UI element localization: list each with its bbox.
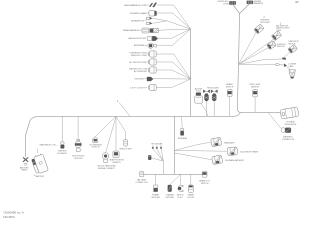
connector top left xyxy=(229,1,235,4)
connector P1 xyxy=(254,24,264,34)
wire F2 to P5 xyxy=(174,142,210,150)
label connector C6 xyxy=(119,149,132,151)
svg-text:12V P. OUTLET: 12V P. OUTLET xyxy=(130,87,145,89)
label battery cable xyxy=(20,166,29,171)
part number xyxy=(3,211,25,219)
svg-text:SPEAKER CN: SPEAKER CN xyxy=(131,19,145,22)
svg-text:RH HEADLAMP ASSY: RH HEADLAMP ASSY xyxy=(225,159,245,162)
label connector C2 xyxy=(72,155,85,160)
wire F1 to P1 xyxy=(239,32,257,64)
svg-text:SENSOR: SENSOR xyxy=(251,87,260,89)
splice pin 1 xyxy=(152,146,154,149)
connector J5 xyxy=(147,36,158,40)
leader J11 xyxy=(146,87,148,89)
connector C18 xyxy=(178,185,183,192)
wire bus left end battery cable xyxy=(26,116,38,156)
svg-text:SWITCH: SWITCH xyxy=(277,46,285,48)
splice connector xyxy=(148,155,151,159)
connector top right xyxy=(247,1,253,4)
svg-text:REV BUZZER: REV BUZZER xyxy=(207,87,219,89)
leader J4 xyxy=(140,29,142,31)
splice pin 2 xyxy=(156,146,158,149)
wire right branch xyxy=(240,111,280,113)
label connector C1 inline xyxy=(40,143,58,146)
label connector P6 xyxy=(240,151,258,154)
wire F1 to P2 xyxy=(239,39,274,64)
label connector J3 xyxy=(131,19,145,22)
wire twisted pair bottom xyxy=(152,21,167,24)
label connector C4 xyxy=(97,164,116,169)
wire J6 to trunk xyxy=(157,29,191,45)
label connector J5 xyxy=(128,37,147,40)
svg-text:GAUGE SUPPORT: GAUGE SUPPORT xyxy=(128,37,147,40)
wire J1 to C6 xyxy=(116,116,126,139)
connector J11 xyxy=(148,84,156,90)
battery stub xyxy=(37,149,39,154)
connector J8 xyxy=(148,59,156,65)
label connector J9 xyxy=(129,68,148,73)
svg-text:SWITCH: SWITCH xyxy=(92,147,100,149)
svg-text:OUTLET: OUTLET xyxy=(187,197,195,199)
label connector P4 xyxy=(288,40,299,45)
wire splice trunk xyxy=(162,161,164,174)
label battery xyxy=(33,175,45,178)
connector J1 xyxy=(149,3,157,7)
wire F2 to P7 xyxy=(174,153,211,160)
wire J1 to C3 xyxy=(95,116,116,136)
label connector P5 xyxy=(224,141,235,144)
label connector P7 xyxy=(225,159,245,162)
svg-text:PLUG: PLUG xyxy=(196,91,201,93)
label connector C5 xyxy=(109,158,124,164)
wire J1 to trunk xyxy=(157,5,191,29)
svg-text:“IF SO”: “IF SO” xyxy=(177,197,183,199)
connector C4 xyxy=(102,153,109,163)
svg-text:SENSOR: SENSOR xyxy=(112,162,121,164)
label connector P3 xyxy=(277,44,286,48)
wire oval to terminal xyxy=(279,64,283,66)
label connector J2 xyxy=(130,12,148,15)
label connector C10 xyxy=(178,137,187,140)
connector C15 xyxy=(202,171,207,177)
svg-text:HARNESS: HARNESS xyxy=(254,2,264,5)
wire J11 to trunk xyxy=(156,79,190,88)
wire trunk main vertical xyxy=(237,14,240,113)
wire J10 to trunk xyxy=(153,78,190,80)
svg-text:SPLICE BAR: SPLICE BAR xyxy=(151,142,163,145)
connector C12 xyxy=(253,90,258,99)
wire C9 drop xyxy=(213,101,215,116)
label connector J8 xyxy=(129,62,147,64)
connector C6 xyxy=(124,140,128,146)
svg-text:SENSOR CONN: SENSOR CONN xyxy=(131,55,147,57)
wire F2 drop xyxy=(173,116,175,174)
splice pin 3 xyxy=(160,146,162,149)
leader J10 xyxy=(145,78,147,80)
leader J6 xyxy=(145,44,147,46)
connector J6 xyxy=(146,43,157,48)
svg-text:CONNECTOR: CONNECTOR xyxy=(282,139,295,141)
label connector C3 xyxy=(89,144,102,148)
connector J7 xyxy=(148,51,156,57)
battery xyxy=(31,153,49,175)
svg-text:GROUND: GROUND xyxy=(134,79,144,81)
connector J2 xyxy=(149,11,157,16)
wire splice 4 xyxy=(152,158,164,161)
svg-text:GROUND: GROUND xyxy=(151,197,160,199)
wire J1 to C5 xyxy=(115,116,117,151)
label connector C19 xyxy=(187,194,195,200)
label connector C1 xyxy=(57,150,67,155)
wire J9 to trunk xyxy=(156,70,190,79)
svg-text:ANTENNA: ANTENNA xyxy=(134,44,145,47)
svg-text:BATTERY: BATTERY xyxy=(36,175,45,178)
svg-text:MAIN HARNESS CONN: MAIN HARNESS CONN xyxy=(124,4,147,7)
svg-text:SWITCH: SWITCH xyxy=(201,183,209,185)
wire C11 drop xyxy=(229,97,231,117)
connector P6 xyxy=(227,147,238,156)
connector C3 xyxy=(93,137,98,143)
wire splice 3 xyxy=(161,149,163,161)
label connector J7 xyxy=(129,53,147,57)
svg-text:ACCESSORY HARN: ACCESSORY HARN xyxy=(240,151,258,154)
label connector J6 xyxy=(134,44,145,47)
label top connector left xyxy=(218,0,230,5)
label module M1 xyxy=(285,121,297,126)
wire J8 to trunk xyxy=(156,62,190,79)
label top connector right xyxy=(254,1,264,5)
wire connector C13 lead xyxy=(268,112,281,129)
label connector C16 xyxy=(151,193,160,199)
svg-text:ANTENNA: ANTENNA xyxy=(178,137,187,140)
label connector J4 xyxy=(123,29,140,32)
wire F1 to P3 xyxy=(239,48,268,64)
wire Y fork left xyxy=(233,5,240,14)
label connector P2 xyxy=(276,26,290,32)
connector C8 xyxy=(203,90,209,101)
battery cable clamp xyxy=(23,157,28,165)
inline terminal on P4 wire xyxy=(282,58,286,60)
label connector C7 xyxy=(195,87,203,92)
wire splice 2 xyxy=(157,149,164,161)
wire Y fork right xyxy=(240,4,250,14)
inline oval splice xyxy=(275,64,279,66)
svg-text:REGULATOR: REGULATOR xyxy=(285,123,297,126)
connector C5 xyxy=(113,151,119,158)
svg-text:CABLE: CABLE xyxy=(21,169,28,172)
connector C1 xyxy=(61,142,65,149)
label connectors C8 C9 xyxy=(207,87,219,89)
connector J4 xyxy=(142,28,158,33)
label connector C15 xyxy=(199,179,210,185)
label connector J11 xyxy=(130,87,145,89)
lamp socket xyxy=(289,70,296,79)
wire F1 oval branch xyxy=(239,63,276,66)
svg-text:SOLENOID: SOLENOID xyxy=(57,153,67,155)
wire C2 drop xyxy=(77,116,79,139)
label splice cluster xyxy=(151,142,163,145)
wire J4 to trunk xyxy=(158,29,190,30)
connector J9 xyxy=(148,67,156,73)
leader J8 xyxy=(147,61,149,63)
leader J3 xyxy=(145,20,147,22)
wire main bus xyxy=(37,112,240,116)
label connector C12 xyxy=(249,84,261,88)
label connector C13 xyxy=(282,136,295,141)
module M1 xyxy=(280,107,299,119)
wire twisted pair top xyxy=(152,18,190,29)
wire C8 drop xyxy=(206,101,208,116)
svg-text:MAIN RELAY CON —: MAIN RELAY CON — xyxy=(40,143,58,146)
svg-text:STEERING HARN: STEERING HARN xyxy=(130,12,148,15)
page mark xyxy=(295,1,299,2)
wire C7 lead xyxy=(201,103,208,116)
wire C16 drop xyxy=(155,174,157,185)
wire C18 drop xyxy=(179,174,181,184)
connector C16 xyxy=(153,185,158,192)
wire F2 to P6 xyxy=(174,150,226,153)
svg-text:REAR HARNESS: REAR HARNESS xyxy=(123,29,140,32)
callout 1 leader xyxy=(119,103,130,117)
svg-text:SWITCHES: SWITCHES xyxy=(260,22,270,24)
svg-text:GLOVE BOX PWR: GLOVE BOX PWR xyxy=(129,62,147,64)
wire F1 to P4 xyxy=(239,52,290,64)
connector P2 xyxy=(271,31,281,41)
wire C17 diagonal xyxy=(170,174,180,185)
svg-text:ENGINE CONNECT: ENGINE CONNECT xyxy=(98,168,116,170)
leader J7 xyxy=(147,53,149,55)
connector C13 xyxy=(281,128,291,133)
leader J9 xyxy=(148,69,150,71)
connector C11 xyxy=(227,90,232,97)
svg-text:LAMP: LAMP xyxy=(289,65,295,68)
wire splice 1 xyxy=(153,149,164,161)
wire C1 drop xyxy=(61,116,63,142)
label connector C14 xyxy=(135,179,148,185)
svg-text:CONN: CONN xyxy=(223,3,229,5)
label connector J10 xyxy=(134,79,144,81)
arrow terminal xyxy=(284,64,287,67)
wire J2 to trunk xyxy=(157,13,191,29)
wire J5 to trunk xyxy=(158,29,191,38)
svg-text:1: 1 xyxy=(117,99,119,103)
connector P4 xyxy=(288,44,298,53)
wire trunk A to B to bus xyxy=(190,29,192,116)
svg-text:SWITCH: SWITCH xyxy=(226,87,234,89)
connector C19 xyxy=(188,185,193,192)
connector J3 pin 1 xyxy=(146,17,152,19)
label connector C18 xyxy=(177,195,184,200)
wire J1 to C4 xyxy=(106,116,116,152)
label connector P1 xyxy=(260,20,270,24)
leader J2 xyxy=(148,12,150,14)
connector P3 xyxy=(267,41,277,50)
svg-text:2: 2 xyxy=(263,16,265,19)
wire bottom bus xyxy=(144,173,204,175)
svg-text:MODULE: MODULE xyxy=(74,158,83,160)
wire to lamp socket xyxy=(286,66,290,70)
label connector C17 xyxy=(166,194,175,200)
svg-text:CONNECTOR: CONNECTOR xyxy=(135,182,148,184)
wire C19 drop xyxy=(190,174,192,185)
connector C14 xyxy=(140,172,144,177)
wire C10 lead xyxy=(181,116,182,128)
connector J10 xyxy=(146,77,153,81)
wire J7 to trunk xyxy=(156,54,190,79)
svg-text:16C48?e: 16C48?e xyxy=(3,215,15,219)
connector J3 pin 2 xyxy=(146,22,152,24)
svg-text:VEHICLE SPD: VEHICLE SPD xyxy=(119,149,132,151)
leader J5 xyxy=(147,37,149,39)
label connector J1 xyxy=(124,4,147,7)
wire C12 drop xyxy=(254,99,256,112)
svg-text:HEADLAMP: HEADLAMP xyxy=(224,141,235,144)
connector C7 xyxy=(195,93,203,104)
connector P7 xyxy=(212,155,223,164)
label lamp socket xyxy=(289,64,297,68)
label connector C11 xyxy=(226,83,234,88)
connector C2 xyxy=(75,139,81,151)
connector P5 xyxy=(211,137,222,146)
leader J1 xyxy=(148,4,150,6)
connector C17 xyxy=(168,185,172,192)
svg-text:ACCESSORY: ACCESSORY xyxy=(134,70,148,73)
connector C10 xyxy=(181,128,184,135)
connector C9 xyxy=(211,90,217,101)
svg-text:GROUND: GROUND xyxy=(166,197,175,199)
